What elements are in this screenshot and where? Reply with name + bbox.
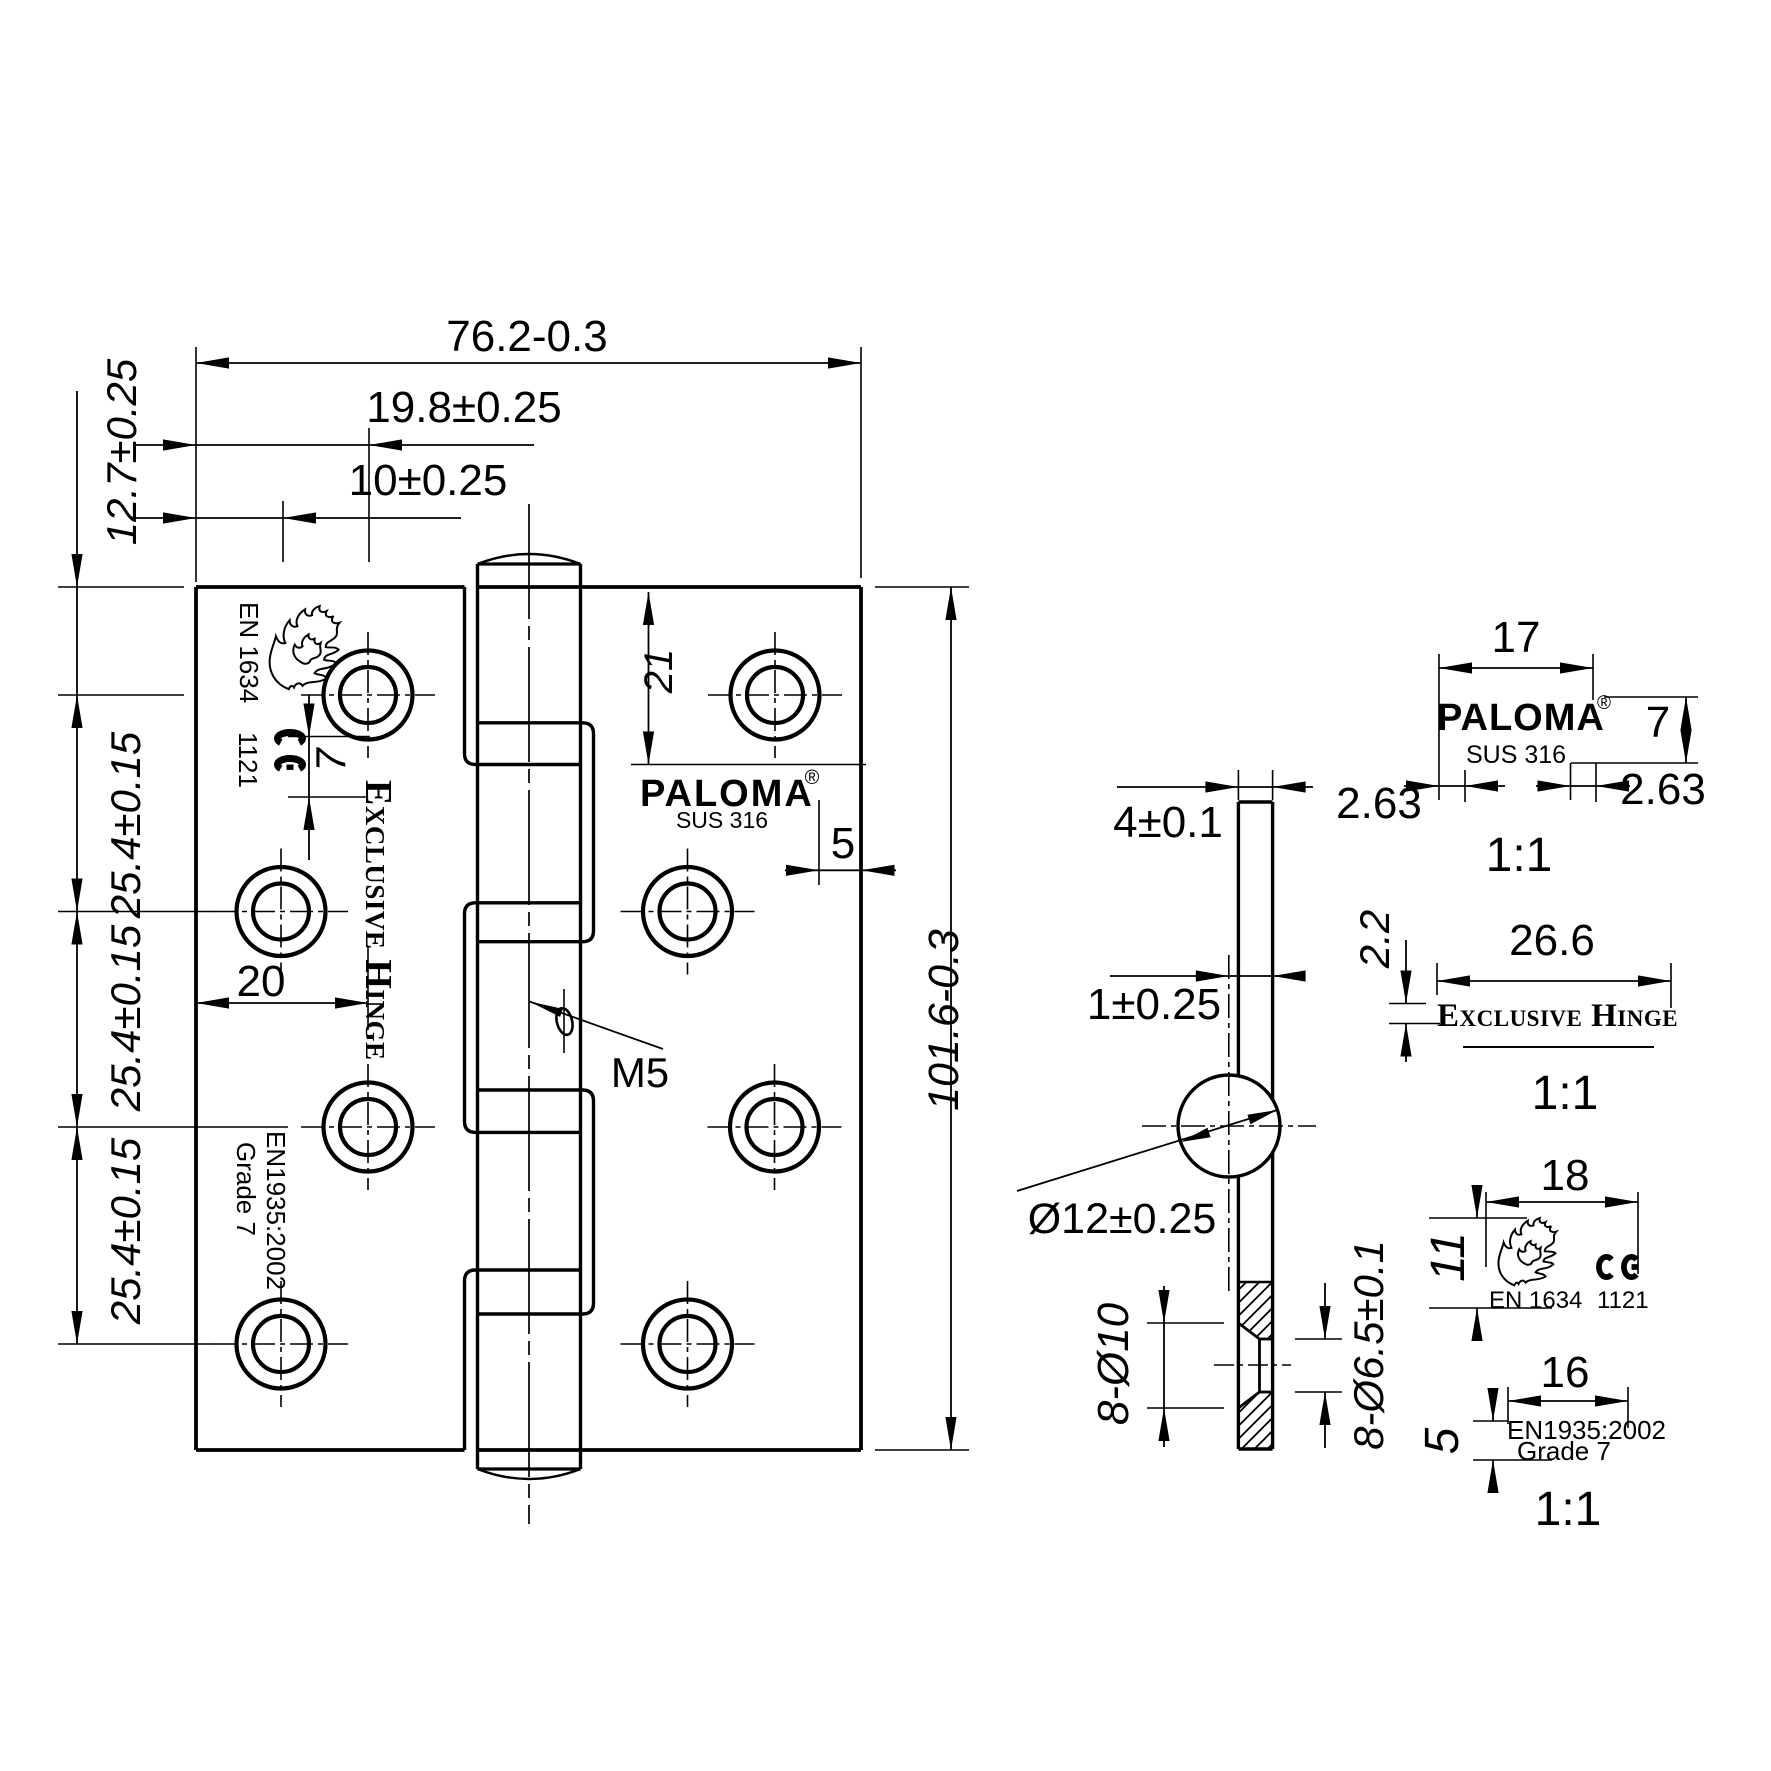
detail3 dim 18 line [1486,1201,1638,1203]
screw hole 2 countersink [237,867,326,956]
svg-text:16: 16 [1541,1348,1590,1397]
dim 5 extension line [818,800,820,885]
dim 4 extension lines [1237,770,1239,800]
svg-text:1121: 1121 [233,732,263,788]
svg-text:25.4±0.15: 25.4±0.15 [102,924,149,1112]
M5 hole ellipse [554,1006,575,1036]
svg-text:1:1: 1:1 [1486,829,1553,882]
svg-text:EN 1634: EN 1634 [1489,1287,1582,1314]
knuckle ring R1 wrap right [478,723,594,942]
svg-text:18: 18 [1541,1151,1590,1200]
dim 7 extension lines [288,736,370,738]
dim 5 line [785,869,896,871]
countersink section top break line [1238,1281,1272,1284]
detail1 dim 7 line [1685,697,1687,763]
dim 101.6 extension lines [875,586,969,588]
detail4 dim 5 extension lines [1473,1420,1508,1422]
svg-text:Grade 7: Grade 7 [1517,1436,1611,1466]
svg-text:SUS 316: SUS 316 [676,807,768,833]
detail2 dim 2.2 line [1405,940,1407,1004]
hinge barrel tube sides [476,564,479,1469]
dim 12.7 arrows [71,554,82,587]
svg-text:4±0.1: 4±0.1 [1113,798,1223,847]
dim 25.4 #2 arrows [71,912,82,945]
svg-text:8-Ø10: 8-Ø10 [1089,1302,1138,1425]
svg-text:5: 5 [831,819,855,868]
detail3 CE mark [1599,1257,1638,1277]
countersink cone outline [1238,1323,1259,1339]
dim 20 line [196,1002,368,1004]
detail1 dim 17 extension lines [1438,654,1440,800]
svg-text:101.6-0.3: 101.6-0.3 [920,929,968,1111]
dim 8-Ø10 line [1163,1286,1165,1447]
svg-text:11: 11 [1422,1232,1475,1282]
dim 21 extension line [631,764,866,766]
svg-text:20: 20 [237,957,286,1006]
side view barrel circle [1178,1075,1280,1177]
detail1 dim 2.63 right [1536,785,1630,787]
dim 19.8 line [134,444,534,446]
svg-text:2.63: 2.63 [1336,779,1422,828]
svg-text:26.6: 26.6 [1509,916,1595,965]
screw hole 6 countersink [643,867,732,956]
knuckle cutout wrap left L2 [465,903,581,1133]
svg-text:®: ® [1597,693,1611,714]
dim 7 line [308,695,310,860]
svg-text:12.7±0.25: 12.7±0.25 [98,358,145,545]
svg-text:1±0.25: 1±0.25 [1087,980,1221,1029]
dim 10 line [134,517,461,519]
detail3 dim 11 extension lines [1429,1217,1527,1219]
svg-text:2.63: 2.63 [1620,765,1706,814]
svg-text:Exclusive Hinge: Exclusive Hinge [1437,998,1678,1034]
screw hole 4 countersink [237,1300,326,1389]
svg-text:25.4±0.15: 25.4±0.15 [102,1137,149,1325]
detail2 underline [1463,1046,1654,1048]
svg-text:EN1935:2002: EN1935:2002 [261,1131,291,1290]
dim 76.2-0.3 line [196,362,861,364]
svg-text:76.2-0.3: 76.2-0.3 [446,312,607,361]
svg-text:Grade 7: Grade 7 [231,1142,261,1236]
countersink hole centerline [1214,1364,1291,1366]
screw hole 8 countersink [643,1300,732,1389]
svg-text:PALOMA: PALOMA [1437,697,1605,739]
svg-text:19.8±0.25: 19.8±0.25 [366,383,561,432]
screw hole 3 countersink [324,1083,413,1172]
CE mark (plate, rotated) [278,732,303,769]
side view barrel centerlines [1142,1125,1316,1127]
detail2 dim 2.2 extension lines [1389,1003,1426,1005]
detail2 dim 26.6 line [1437,980,1671,982]
dim 25.4 #1 arrows [71,879,82,912]
detail4 dim 16 extension lines [1507,1387,1509,1424]
detail1 dim 17 line [1439,667,1593,669]
dim 8-Ø10 extension lines [1147,1322,1224,1324]
left chain dimension line [76,391,78,1344]
svg-text:1:1: 1:1 [1532,1067,1599,1120]
side view strip outline [1238,800,1272,803]
detail3 flame icon [1498,1218,1556,1285]
hinge leaf plate outline (front view) [196,585,465,589]
left chain extension lines [58,586,184,588]
svg-text:10±0.25: 10±0.25 [349,456,508,505]
M5 leader line and arrow [530,1002,664,1050]
svg-text:EN 1634: EN 1634 [234,602,264,703]
detail3 dim 11 line [1476,1185,1478,1218]
dim 8-Ø6.5 line [1324,1283,1326,1339]
barrel bottom cap with dome [478,1467,581,1470]
dim 25.4 #3 arrows [71,1127,82,1160]
svg-text:5: 5 [1416,1427,1469,1454]
svg-text:®: ® [805,767,820,789]
detail1 dim 7 extension lines [1604,696,1698,698]
knuckle ring R2 wrap right [478,1090,594,1314]
svg-text:21: 21 [637,649,681,695]
svg-text:17: 17 [1492,613,1541,662]
svg-text:7: 7 [1646,698,1670,747]
barrel top cap with dome [478,562,581,565]
svg-text:Ø12±0.25: Ø12±0.25 [1028,1195,1217,1243]
dim 8-Ø6.5 extension lines [1295,1338,1342,1340]
detail4 dim 16 line [1508,1400,1628,1402]
dim 10 extension line [282,501,284,562]
dim Ø12 leader through circle [1017,1110,1277,1191]
dim 76.2-0.3 extension lines [195,347,197,582]
hinge pin centerline [528,504,530,1524]
detail1 dim 2.63 left [1404,785,1505,787]
dim 20 extension line [367,947,369,1030]
svg-text:25.4±0.15: 25.4±0.15 [102,731,149,919]
svg-text:1:1: 1:1 [1535,1483,1602,1536]
dim 19.8 extension line [368,428,370,562]
knuckle cutout wrap left L3 [465,1270,581,1450]
screw hole 5 countersink [731,651,820,740]
svg-text:M5: M5 [611,1049,669,1096]
dim 1 line [1110,975,1303,977]
detail2 dim 26.6 extension lines [1436,963,1438,995]
svg-text:SUS 316: SUS 316 [1466,741,1566,769]
svg-text:1121: 1121 [1597,1287,1649,1314]
dim 21 line [648,592,650,765]
screw hole 7 countersink [730,1083,819,1172]
svg-text:2.2: 2.2 [1351,910,1398,969]
svg-text:7: 7 [307,747,354,772]
detail4 dim 5 line [1492,1388,1494,1421]
svg-text:8-Ø6.5±0.1: 8-Ø6.5±0.1 [1345,1240,1392,1450]
detail3 dim 18 extension lines [1485,1192,1487,1267]
flame icon (plate) [270,606,340,689]
screw hole 1 countersink [324,651,413,740]
dim 101.6 line [950,587,952,1450]
dim 4 line [1117,786,1313,788]
knuckle cutout wrap left L1 [465,587,581,765]
svg-text:Exclusive Hinge: Exclusive Hinge [357,780,399,1060]
